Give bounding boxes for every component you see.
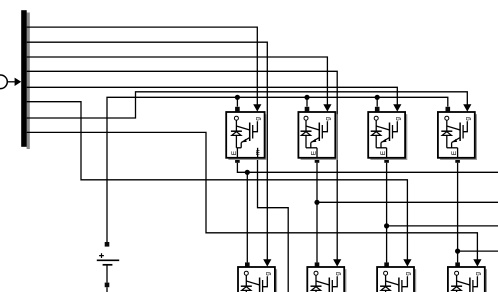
IGBT symbol of Q5 xyxy=(246,281,259,285)
pin label C (rotated) of Q4 xyxy=(445,116,449,120)
pin label C (rotated) of Q8 xyxy=(455,271,459,275)
anti-parallel diode of Q7 xyxy=(385,276,387,287)
svg-text:g: g xyxy=(265,272,272,276)
anti-parallel diode of Q2 xyxy=(305,121,307,132)
wire: demux out2 -> gate of module Q5 (bottom row) xyxy=(27,42,272,266)
battery B1 (DC voltage source) xyxy=(97,242,119,292)
wire: demux out4 -> gate of module Q6 (bottom row) xyxy=(27,71,342,266)
node: junction DC+ at C of Q2 xyxy=(304,95,309,107)
port square C of Q5 xyxy=(245,262,250,267)
svg-text:E: E xyxy=(380,150,387,155)
svg-text:g: g xyxy=(255,117,262,121)
input port In1 xyxy=(0,75,21,89)
anti-parallel diode of Q3 xyxy=(375,121,377,132)
block body of Q6 with drop shadow xyxy=(310,269,347,292)
wire: demux out1 -> gate of module Q1 xyxy=(27,27,262,112)
IGBT symbol of Q3 xyxy=(376,126,389,130)
pin label C (rotated) of Q3 xyxy=(374,116,378,120)
IGBT/Diode module Q1 xyxy=(226,112,267,160)
wire: leg D midpoint (E of Q4 -> output, to C of Q8) xyxy=(455,158,498,262)
IGBT/Diode module Q3 xyxy=(368,112,407,160)
IGBT symbol of Q8 xyxy=(457,281,470,285)
anti-parallel diode of Q5 xyxy=(245,276,247,287)
port square C of Q2 xyxy=(305,107,310,112)
IGBT/Diode module Q2 xyxy=(298,112,337,160)
svg-text:E: E xyxy=(451,150,458,155)
pin label C (rotated) of Q6 xyxy=(314,271,318,275)
wire: battery - to bottom edge xyxy=(106,287,108,292)
port square C of Q6 xyxy=(315,262,320,267)
port square C of Q4 xyxy=(446,107,451,112)
svg-text:g: g xyxy=(465,117,472,121)
port square C of Q8 xyxy=(455,262,460,267)
block body of Q4 with drop shadow xyxy=(440,114,477,160)
IGBT symbol of Q7 xyxy=(386,281,399,285)
anti-parallel diode of Q6 xyxy=(315,276,317,287)
wire: leg C midpoint (E of Q3 -> output, to C of Q7) xyxy=(384,158,498,262)
demux (8 gate signals) xyxy=(21,10,30,149)
IGBT symbol of Q1 xyxy=(236,126,249,130)
block body of Q2 with drop shadow xyxy=(301,114,338,160)
anti-parallel diode of Q4 xyxy=(446,121,448,132)
node: junction DC+ at C of Q1 xyxy=(235,95,240,107)
wire: demux out6 -> gate of module Q7 (bottom row) xyxy=(27,102,412,267)
port square C of Q1 xyxy=(235,107,240,112)
port square C of Q7 xyxy=(384,262,389,267)
IGBT/Diode module Q5 xyxy=(238,267,277,292)
anti-parallel diode of Q1 xyxy=(235,121,237,132)
svg-text:g: g xyxy=(395,117,402,121)
IGBT/Diode module Q7 xyxy=(377,267,416,292)
pin label C (rotated) of Q7 xyxy=(384,271,388,275)
anti-parallel diode of Q8 xyxy=(456,276,458,287)
svg-text:g: g xyxy=(405,272,412,276)
wire: demux out8 -> gate of module Q8 (bottom row) xyxy=(27,132,482,266)
svg-text:E: E xyxy=(311,150,318,155)
IGBT symbol of Q6 xyxy=(316,281,329,285)
IGBT/Diode module Q6 xyxy=(307,267,346,292)
wire: demux out3 -> gate of module Q2 xyxy=(27,57,332,112)
wire: measurement m of Q1 xyxy=(258,158,289,292)
wire: leg A midpoint (E of Q1 -> output, to C of Q5) xyxy=(235,158,498,262)
svg-text:E: E xyxy=(231,150,238,155)
IGBT symbol of Q2 xyxy=(306,126,319,130)
pin label C (rotated) of Q1 xyxy=(234,116,238,120)
block body of Q8 with drop shadow xyxy=(450,269,487,292)
wire: demux out7 -> gate of module Q4 xyxy=(27,92,472,118)
port square C of Q3 xyxy=(375,107,380,112)
pin label C (rotated) of Q2 xyxy=(304,116,308,120)
IGBT/Diode module Q8 xyxy=(448,267,487,292)
pin label C (rotated) of Q5 xyxy=(244,271,248,275)
IGBT/Diode module Q4 xyxy=(438,112,477,160)
svg-text:g: g xyxy=(475,272,482,276)
block body of Q1 with drop shadow xyxy=(228,114,266,160)
wire: demux out5 -> gate of module Q3 xyxy=(27,87,402,111)
wire: DC+ bus (battery + to collectors C of Q1..Q4) xyxy=(107,97,448,242)
block body of Q5 with drop shadow xyxy=(240,269,277,292)
wire: leg B midpoint (E of Q2 -> output, to C of Q6) xyxy=(314,158,498,262)
IGBT symbol of Q4 xyxy=(447,126,460,130)
svg-text:g: g xyxy=(325,117,332,121)
block body of Q3 with drop shadow xyxy=(370,114,407,160)
block body of Q7 with drop shadow xyxy=(379,269,416,292)
node: junction DC+ at C of Q3 xyxy=(375,95,380,107)
svg-text:g: g xyxy=(334,272,341,276)
